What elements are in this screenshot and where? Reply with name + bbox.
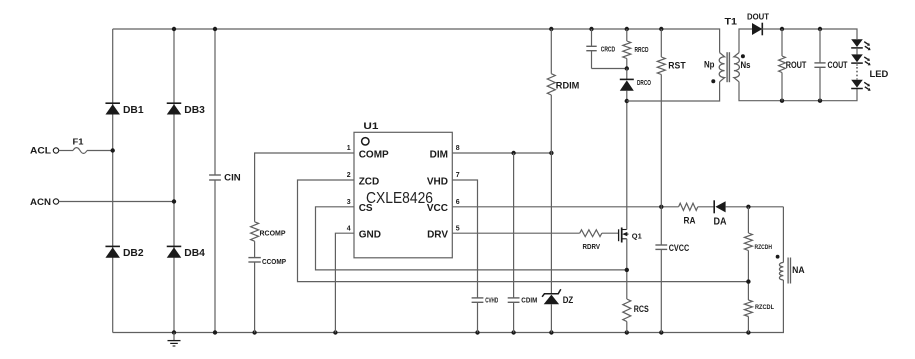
svg-text:RDRV: RDRV (583, 244, 601, 251)
svg-text:4: 4 (347, 225, 351, 232)
svg-text:3: 3 (347, 199, 351, 206)
svg-text:CCOMP: CCOMP (262, 257, 286, 266)
svg-text:RST: RST (668, 61, 685, 72)
svg-text:COUT: COUT (828, 60, 848, 70)
svg-text:RCS: RCS (634, 304, 649, 315)
svg-text:ACL: ACL (30, 145, 51, 156)
svg-text:ROUT: ROUT (786, 60, 807, 70)
svg-text:ACN: ACN (30, 197, 51, 208)
svg-text:NA: NA (792, 265, 805, 276)
svg-text:Np: Np (704, 60, 715, 70)
svg-text:DA: DA (714, 217, 727, 228)
svg-text:DIM: DIM (430, 149, 448, 160)
svg-text:F1: F1 (73, 137, 85, 146)
svg-text:RCOMP: RCOMP (260, 228, 286, 237)
svg-text:DZ: DZ (563, 295, 574, 305)
svg-text:7: 7 (456, 172, 460, 179)
svg-text:RZCDL: RZCDL (755, 304, 774, 311)
svg-text:VHD: VHD (427, 176, 448, 187)
svg-text:CXLE8426: CXLE8426 (366, 190, 433, 207)
svg-text:RA: RA (684, 216, 696, 227)
svg-text:6: 6 (456, 199, 460, 206)
svg-text:5: 5 (456, 225, 460, 232)
svg-text:T1: T1 (725, 16, 738, 27)
svg-text:CDIM: CDIM (521, 298, 537, 305)
svg-text:COMP: COMP (359, 149, 389, 160)
svg-text:Ns: Ns (741, 60, 751, 70)
svg-text:DB1: DB1 (123, 105, 144, 116)
svg-text:CVHD: CVHD (485, 298, 498, 305)
svg-text:8: 8 (456, 145, 460, 152)
svg-text:CVCC: CVCC (669, 243, 690, 253)
svg-text:DRCO: DRCO (637, 80, 651, 87)
svg-text:GND: GND (359, 230, 381, 241)
svg-text:2: 2 (347, 172, 351, 179)
svg-text:CIN: CIN (224, 173, 241, 183)
svg-text:RDIM: RDIM (556, 80, 580, 90)
svg-text:U1: U1 (363, 121, 378, 131)
svg-text:ZCD: ZCD (359, 176, 380, 187)
svg-text:LED: LED (870, 69, 889, 80)
svg-text:DOUT: DOUT (747, 12, 770, 22)
svg-text:DB2: DB2 (123, 248, 144, 259)
svg-text:RRCD: RRCD (635, 47, 649, 54)
svg-text:DB4: DB4 (184, 248, 205, 259)
svg-text:CRCD: CRCD (601, 46, 616, 53)
svg-text:RZCDH: RZCDH (755, 244, 773, 251)
svg-text:DB3: DB3 (184, 105, 205, 116)
svg-text:1: 1 (347, 145, 351, 152)
svg-text:DRV: DRV (427, 230, 448, 241)
svg-text:Q1: Q1 (632, 231, 642, 240)
